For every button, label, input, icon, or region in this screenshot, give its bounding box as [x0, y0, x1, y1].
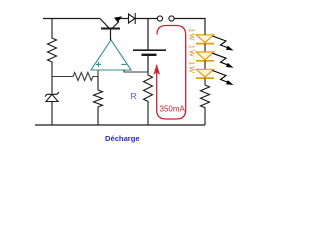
- LED D5: [196, 69, 234, 85]
- resistor R2 (horizontal): [52, 73, 98, 81]
- zener diode D1: [45, 92, 59, 101]
- wire top rail: [43, 18, 100, 20]
- diode D2: [129, 13, 136, 24]
- LED D3: [196, 32, 234, 52]
- connector J1 circle 2: [169, 16, 174, 21]
- svg-text:Décharge: Décharge: [105, 134, 140, 143]
- wire connector to LED column: [174, 19, 205, 33]
- wire left column: [51, 64, 53, 94]
- resistor R5: [144, 72, 153, 125]
- wire zener to bottom rail: [51, 102, 53, 126]
- red current loop: [157, 26, 186, 120]
- resistor R1 (left vertical): [48, 19, 57, 65]
- wire op-amp output to transistor base: [110, 29, 112, 40]
- svg-text:350mA: 350mA: [160, 105, 186, 114]
- red current arrowhead: [153, 64, 160, 75]
- op-amp U1: [91, 40, 131, 70]
- svg-text:1W 1W 1W: 1W 1W 1W: [188, 29, 195, 75]
- resistor R3 (vertical mid): [94, 77, 103, 126]
- bottom rail: [35, 124, 205, 126]
- wire transistor to diode: [120, 18, 129, 20]
- battery BT1: [133, 19, 166, 73]
- resistor R4 (LED column): [201, 85, 210, 125]
- svg-text:R: R: [131, 91, 137, 101]
- wire to op-amp + input: [97, 70, 99, 77]
- wire diode to connector: [135, 18, 157, 20]
- LED D4: [196, 52, 234, 69]
- wire op-amp minus input to battery/R junction: [124, 70, 148, 72]
- transistor Q1: [100, 17, 122, 29]
- connector J1 circle 1: [157, 16, 162, 21]
